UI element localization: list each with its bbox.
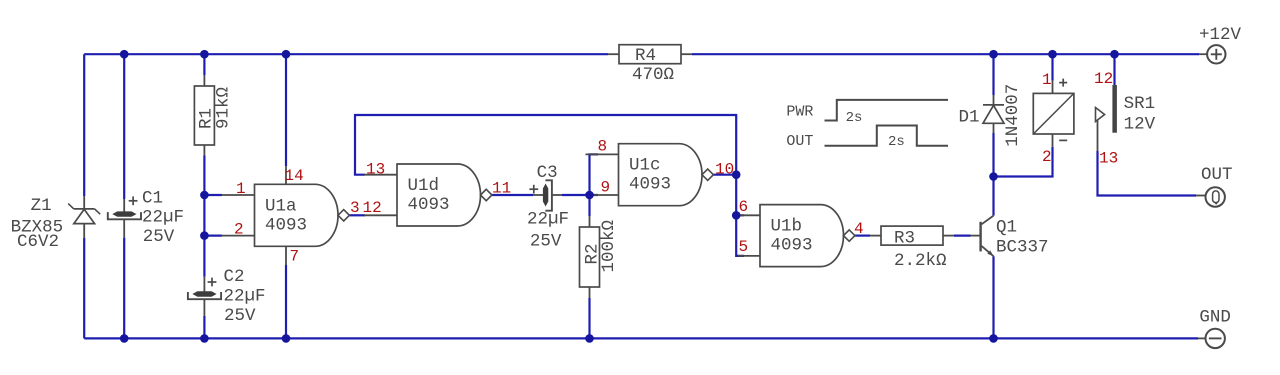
- svg-text:U1b: U1b: [771, 216, 803, 236]
- label R1: [197, 108, 217, 129]
- pin stubs U1c inputs: [586, 154, 619, 195]
- junction GND rail Q1 emitter: [989, 334, 998, 343]
- relay SR1 coil: [1033, 93, 1074, 134]
- resistor R3 pin stubs: [870, 235, 954, 237]
- value U1a 4093: [265, 216, 307, 236]
- value U1d 4093: [408, 195, 450, 215]
- svg-text:22µF: 22µF: [142, 208, 184, 228]
- wire R2 to GND rail: [588, 298, 590, 338]
- value R2 100k: [599, 220, 619, 273]
- node E U1b pin6: [732, 211, 741, 220]
- svg-text:22µF: 22µF: [224, 287, 266, 307]
- value R1 91k: [214, 87, 234, 129]
- svg-text:8: 8: [598, 138, 608, 156]
- junction top rail SR1 coil: [1048, 50, 1057, 59]
- node B U1a pin2 C2: [200, 231, 209, 240]
- svg-text:BC337: BC337: [996, 238, 1049, 258]
- wire node to U1b pin 5: [736, 215, 744, 256]
- label U1c: [629, 156, 661, 176]
- svg-text:+12V: +12V: [1199, 25, 1242, 45]
- wire GND bottom rail: [84, 337, 1198, 339]
- pin number U1c 9: [601, 179, 611, 197]
- label Q1: [996, 218, 1017, 238]
- capacitor C1 symbol: [108, 196, 141, 219]
- svg-text:U1c: U1c: [629, 156, 661, 176]
- svg-text:25V: 25V: [224, 306, 256, 326]
- pin number U1a 3: [350, 199, 360, 217]
- capacitor C3 symbol: [529, 180, 552, 210]
- wire U1c output to node: [713, 174, 736, 176]
- wire C2 to GND rail: [203, 316, 205, 338]
- junction top rail R1: [200, 50, 209, 59]
- label U1b: [771, 216, 803, 236]
- wire node to C2: [203, 236, 205, 277]
- svg-text:4093: 4093: [265, 216, 307, 236]
- wire D1 cathode to top rail: [992, 54, 994, 95]
- wire U1a pin 2: [204, 235, 222, 237]
- svg-text:U1a: U1a: [265, 196, 297, 216]
- resistor R1 pin stubs: [203, 75, 205, 156]
- svg-text:4093: 4093: [771, 236, 813, 256]
- op-amp U1a nand gate body: [255, 184, 350, 246]
- value C2 22uF: [224, 287, 266, 307]
- svg-text:5: 5: [739, 238, 749, 256]
- wire C1 branch upper: [123, 54, 125, 199]
- transistor Q1 symbol: [981, 216, 994, 257]
- relay SR1 contact armature arrow: [1096, 108, 1105, 152]
- value C6V2: [17, 232, 59, 252]
- pin number U1d 11: [492, 180, 511, 198]
- pin number U1d 12: [363, 199, 382, 217]
- pin number U1a 1: [236, 180, 246, 198]
- op-amp U1d nand gate body: [397, 164, 492, 226]
- svg-text:2: 2: [234, 221, 244, 239]
- label R4: [635, 46, 656, 66]
- value R3 2.2k: [894, 251, 947, 271]
- pin number SR1 1: [1042, 71, 1052, 89]
- svg-text:4093: 4093: [629, 175, 671, 195]
- wire left vertical below Z1: [83, 238, 85, 338]
- svg-text:2s: 2s: [888, 134, 905, 150]
- svg-text:22µF: 22µF: [527, 210, 569, 230]
- junction GND rail R2: [585, 334, 594, 343]
- pin stubs U1a inputs: [222, 195, 255, 236]
- label +12V: [1199, 25, 1242, 45]
- pin number U1b 4: [854, 220, 864, 238]
- pin stubs U1b inputs: [738, 215, 760, 256]
- svg-text:11: 11: [492, 180, 511, 198]
- svg-text:12V: 12V: [1124, 115, 1156, 135]
- label C1: [142, 189, 163, 209]
- wire D1 anode to node: [992, 133, 994, 177]
- wire U1d pin 13 feedback from U1c output: [355, 115, 736, 175]
- value C1 22uF: [142, 208, 184, 228]
- pin number U1b 6: [739, 198, 749, 216]
- timing diagram OUT 2s label: [888, 134, 905, 150]
- svg-text:9: 9: [601, 179, 611, 197]
- pin number U1b 5: [739, 238, 749, 256]
- pin number U1d 13: [366, 161, 385, 179]
- wire relay contact pin 12 to top rail: [1113, 54, 1115, 85]
- wire Q1 collector to node: [992, 177, 994, 216]
- svg-text:4093: 4093: [408, 195, 450, 215]
- label D1: [959, 108, 980, 128]
- wire relay coil pin 1 to top rail: [1051, 54, 1053, 80]
- wire node to U1c pin 8: [590, 154, 599, 195]
- wire U1a pin 14 power: [285, 54, 287, 166]
- value R4 470: [632, 65, 674, 85]
- svg-text:OUT: OUT: [786, 133, 813, 150]
- value C2 25V: [224, 306, 256, 326]
- svg-text:C6V2: C6V2: [17, 232, 59, 252]
- pin number SR1 12: [1094, 70, 1113, 88]
- svg-text:7: 7: [290, 248, 300, 266]
- svg-text:C3: C3: [537, 163, 558, 183]
- svg-text:R3: R3: [894, 229, 915, 249]
- label Z1: [31, 196, 52, 216]
- svg-text:U1d: U1d: [408, 176, 440, 196]
- svg-text:10: 10: [715, 161, 734, 179]
- value U1b 4093: [771, 236, 813, 256]
- label OUT terminal: [1201, 165, 1233, 185]
- svg-text:100kΩ: 100kΩ: [599, 220, 619, 273]
- wire R1 to U1a input node: [203, 156, 205, 236]
- svg-text:PWR: PWR: [786, 103, 813, 120]
- capacitor C1 pin stubs: [123, 199, 125, 238]
- junction top rail C1: [120, 50, 129, 59]
- wire U1a output to U1d pin 12: [349, 214, 365, 216]
- node F D1 relay Q1 collector: [989, 172, 998, 181]
- value BZX85: [11, 218, 64, 238]
- value BC337: [996, 238, 1049, 258]
- op-amp U1b nand gate body: [760, 205, 855, 267]
- value C3 22uF: [527, 210, 569, 230]
- label SR1: [1124, 94, 1156, 114]
- svg-text:2s: 2s: [846, 110, 863, 126]
- junction top rail D1: [989, 50, 998, 59]
- wire node to R2: [588, 195, 590, 216]
- label GND: [1199, 308, 1231, 328]
- svg-text:25V: 25V: [530, 232, 562, 252]
- value U1c 4093: [629, 175, 671, 195]
- wire R1 branch from top rail: [203, 54, 205, 75]
- pin number U1a 2: [234, 221, 244, 239]
- node A U1a pin1 R1: [200, 191, 209, 200]
- terminal OUT pad: [1196, 187, 1225, 206]
- op-amp U1c nand gate body: [619, 144, 714, 206]
- junction GND rail C1: [120, 334, 129, 343]
- svg-text:1: 1: [236, 180, 246, 198]
- capacitor C3 pin stubs: [533, 194, 562, 196]
- wire left vertical above Z1: [83, 54, 85, 196]
- svg-text:OUT: OUT: [1201, 165, 1233, 185]
- junction top rail SR1 contact: [1110, 50, 1119, 59]
- svg-text:Q1: Q1: [996, 218, 1017, 238]
- svg-text:4: 4: [854, 220, 864, 238]
- resistor R4 pin stubs: [608, 53, 692, 55]
- wire +12V top rail right segment: [692, 53, 1199, 55]
- label C2: [224, 267, 245, 287]
- svg-text:13: 13: [366, 161, 385, 179]
- pin number SR1 13: [1099, 150, 1118, 168]
- svg-text:25V: 25V: [143, 227, 175, 247]
- wire node to U1b pin 6: [736, 175, 744, 216]
- label R3: [894, 229, 915, 249]
- relay SR1 coil plus mark: [1059, 79, 1067, 87]
- relay SR1 coil minus mark: [1059, 139, 1067, 141]
- svg-text:3: 3: [350, 199, 360, 217]
- wire U1d output to C3: [492, 194, 533, 196]
- wire R3 to Q1 base: [954, 235, 971, 237]
- pin number U1a 7: [290, 248, 300, 266]
- svg-text:2.2kΩ: 2.2kΩ: [894, 251, 947, 271]
- timing diagram PWR waveform: [825, 100, 949, 121]
- resistor R2 pin stubs: [589, 216, 591, 298]
- zener Z1 symbol: [68, 204, 100, 224]
- diode D1 pin stubs: [993, 95, 995, 133]
- wire +12V top rail left segment: [84, 53, 608, 55]
- svg-text:GND: GND: [1199, 308, 1231, 328]
- pin number SR1 2: [1042, 148, 1052, 166]
- svg-text:Z1: Z1: [31, 196, 52, 216]
- wire relay contact pin 13 to OUT terminal: [1098, 151, 1197, 196]
- value SR1 12V: [1124, 115, 1156, 135]
- diode D1 symbol: [983, 105, 1004, 123]
- svg-text:SR1: SR1: [1124, 94, 1156, 114]
- resistor R3 body: [881, 226, 943, 245]
- svg-text:14: 14: [285, 167, 304, 185]
- svg-text:12: 12: [363, 199, 382, 217]
- svg-text:470Ω: 470Ω: [632, 65, 674, 85]
- capacitor C2 pin stubs: [203, 277, 205, 316]
- timing diagram PWR 2s label: [846, 110, 863, 126]
- wire U1a pin 1: [204, 194, 222, 196]
- pin number U1a 14: [285, 167, 304, 185]
- pin stubs U1a power pins: [285, 166, 287, 265]
- resistor R2 body: [580, 227, 600, 287]
- wire U1a pin 7 ground: [285, 265, 287, 338]
- svg-text:13: 13: [1099, 150, 1118, 168]
- svg-text:1N4007: 1N4007: [1003, 84, 1023, 147]
- relay SR1 coil pin stubs: [1052, 81, 1054, 147]
- timing diagram PWR label: [786, 103, 813, 120]
- node C C3 R2 U1c pin9: [585, 191, 594, 200]
- relay SR1 contact blade: [1112, 85, 1117, 133]
- capacitor C2 symbol: [188, 278, 221, 300]
- wire U1b output to R3: [855, 235, 870, 237]
- timing diagram OUT label: [786, 133, 813, 150]
- wire node to relay coil pin 2: [994, 147, 1053, 177]
- junction GND rail U1a pin7: [282, 334, 291, 343]
- svg-text:R4: R4: [635, 46, 656, 66]
- junction top rail U1a pin14: [282, 50, 291, 59]
- zener Z1 pin stubs: [83, 196, 85, 238]
- label C3: [537, 163, 558, 183]
- resistor R4 body: [619, 45, 681, 64]
- wire C1 branch lower: [123, 238, 125, 339]
- svg-text:C2: C2: [224, 267, 245, 287]
- label U1a: [265, 196, 297, 216]
- wire C3 to node: [562, 194, 598, 196]
- svg-text:2: 2: [1042, 148, 1052, 166]
- terminal GND pad: [1198, 329, 1225, 348]
- value C1 25V: [143, 227, 175, 247]
- wire Q1 emitter to GND rail: [992, 256, 994, 338]
- node D U1c output: [732, 170, 741, 179]
- label R2: [582, 243, 602, 264]
- timing diagram OUT waveform: [825, 126, 949, 146]
- value C3 25V: [530, 232, 562, 252]
- terminal +12V pad: [1199, 45, 1226, 63]
- transistor Q1 base stub: [971, 235, 981, 237]
- junction GND rail C2: [200, 334, 209, 343]
- svg-text:91kΩ: 91kΩ: [214, 87, 234, 129]
- svg-text:1: 1: [1042, 71, 1052, 89]
- pin number U1c 10: [715, 161, 734, 179]
- pin stubs U1d inputs: [364, 175, 397, 216]
- svg-text:12: 12: [1094, 70, 1113, 88]
- pin number U1c 8: [598, 138, 608, 156]
- svg-text:C1: C1: [142, 189, 163, 209]
- resistor R1 body: [194, 86, 214, 145]
- svg-text:D1: D1: [959, 108, 980, 128]
- value 1N4007: [1003, 84, 1023, 147]
- label U1d: [408, 176, 440, 196]
